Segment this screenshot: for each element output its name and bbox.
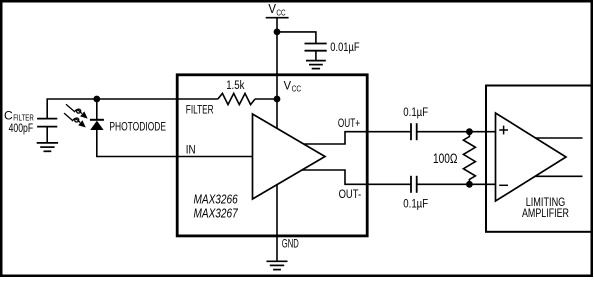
capacitor CFILTER plates: [37, 119, 57, 127]
svg-text:V: V: [284, 78, 291, 92]
node junction dot at VCC/bypass: [274, 29, 281, 36]
wire IN pin to amp: [177, 156, 252, 158]
node junction dot 100ohm top: [466, 128, 473, 135]
svg-text:400pF: 400pF: [9, 123, 33, 135]
IC U1 MAX3266/MAX3267 box: [177, 75, 367, 236]
svg-text:CC: CC: [276, 7, 285, 17]
wire photodiode anode to IN: [97, 130, 177, 157]
svg-text:0.1µF: 0.1µF: [403, 107, 428, 119]
wire CFILTER top plate to FILTER net: [47, 99, 177, 119]
photodiode D1: [90, 120, 104, 130]
wire limiting amp output bottom: [535, 175, 582, 177]
capacitor C3 0.1uF (OUT-) plates: [411, 176, 417, 193]
svg-text:MAX3266: MAX3266: [194, 191, 239, 206]
svg-text:FILTER: FILTER: [13, 113, 34, 122]
resistor R1 1.5k: [218, 93, 255, 104]
svg-text:GND: GND: [282, 239, 299, 251]
limiting amplifier box: [486, 86, 592, 232]
svg-text:AMPLIFIER: AMPLIFIER: [522, 206, 569, 220]
net VCC (top rail label): [266, 1, 289, 18]
wire cap to ground: [315, 51, 317, 61]
capacitor C2 0.1uF (OUT+) plates: [411, 123, 417, 140]
wire OUT+ cap to limiting amp: [417, 131, 496, 133]
node junction dot photodiode/FILTER: [93, 96, 100, 103]
plus input marker: [499, 126, 508, 135]
wire photodiode cathode: [96, 99, 98, 120]
node junction dot VCC pin: [274, 96, 281, 103]
wire OUT- step: [302, 170, 411, 184]
svg-text:C: C: [4, 108, 13, 122]
light arrow 1: [66, 104, 88, 118]
VCC rail bar: [266, 17, 289, 19]
wire VCC rail to amp VCC pin: [276, 18, 278, 129]
wire resistor to VCC pin: [255, 98, 277, 100]
svg-text:OUT+: OUT+: [338, 116, 360, 130]
wire CFILTER bottom plate to ground: [46, 127, 48, 143]
svg-text:0.01µF: 0.01µF: [330, 40, 359, 54]
wire OUT+ step: [304, 132, 411, 144]
svg-text:CC: CC: [292, 84, 302, 94]
svg-text:OUT-: OUT-: [339, 187, 362, 201]
svg-text:100Ω: 100Ω: [433, 151, 458, 166]
svg-text:0.1µF: 0.1µF: [403, 199, 428, 211]
svg-text:1.5k: 1.5k: [226, 80, 244, 92]
ground (CFILTER): [37, 143, 58, 151]
svg-text:IN: IN: [186, 142, 196, 156]
svg-text:PHOTODIODE: PHOTODIODE: [109, 120, 166, 134]
capacitor C 0.01uF plates: [305, 44, 327, 51]
wire to bypass capacitor: [277, 32, 316, 44]
wire FILTER pin to resistor: [177, 98, 218, 100]
svg-text:FILTER: FILTER: [186, 103, 214, 117]
op-amp U2 limiting amp triangle: [496, 113, 567, 201]
wire limiting amp output top: [536, 137, 583, 139]
light arrow 2: [64, 113, 86, 127]
minus input marker: [499, 184, 508, 186]
ground (bypass cap): [306, 61, 326, 69]
resistor R2 100ohm: [463, 132, 475, 185]
svg-text:V: V: [268, 1, 276, 16]
op-amp A1 triangle: [253, 114, 326, 199]
wire GND pin: [276, 185, 278, 262]
ground (GND pin): [267, 261, 288, 269]
node junction dot 100ohm bottom: [466, 181, 473, 188]
svg-text:MAX3267: MAX3267: [194, 206, 239, 221]
wire OUT- cap to limiting amp: [417, 183, 496, 185]
